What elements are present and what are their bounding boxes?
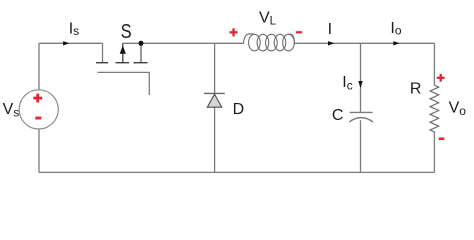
voltage source Vs	[19, 90, 58, 129]
wire left rail lower	[38, 129, 40, 172]
wire diode branch lower	[214, 107, 216, 172]
svg-text:C: C	[332, 107, 344, 124]
svg-text:I: I	[328, 21, 332, 38]
wire bottom rail	[39, 171, 434, 173]
wire capacitor branch lower	[360, 120, 362, 172]
resistor R (zigzag)	[430, 85, 439, 132]
channel bar right	[134, 62, 148, 63]
polarity plus of VL	[230, 28, 238, 36]
junction dot at source node	[139, 41, 144, 46]
diode D	[204, 93, 225, 107]
wire right rail lower (resistor bottom lead)	[433, 132, 435, 173]
inductor L (coil)	[244, 34, 295, 51]
wire top rail left segment	[39, 42, 103, 44]
svg-text:Io: Io	[390, 20, 401, 37]
body arrow of MOSFET	[122, 43, 124, 62]
wire right rail upper (resistor top lead)	[433, 43, 435, 85]
current arrow I	[328, 41, 334, 45]
wire capacitor branch upper	[360, 43, 362, 112]
current arrow Ic	[358, 81, 362, 88]
current arrow Io	[393, 41, 399, 45]
wire gate lead	[97, 72, 149, 95]
transistor S (switch MOSFET)	[96, 41, 149, 95]
svg-text:D: D	[233, 101, 245, 118]
polarity minus of Vo	[439, 138, 445, 141]
channel bar left	[96, 62, 108, 63]
polarity minus of VL	[296, 31, 302, 33]
polarity plus of Vo	[437, 74, 445, 82]
source stub	[140, 43, 142, 62]
channel bar middle	[116, 62, 130, 63]
wire drain stub	[102, 43, 104, 62]
svg-text:R: R	[410, 81, 422, 98]
wire top rail middle segment	[123, 42, 244, 44]
current arrow Is	[63, 41, 69, 45]
svg-text:S: S	[121, 20, 132, 43]
svg-text:Is: Is	[69, 21, 79, 39]
capacitor C	[349, 112, 373, 122]
wire top rail right segment	[295, 42, 435, 44]
wire left rail upper	[38, 43, 40, 90]
wire diode branch upper	[214, 43, 216, 93]
